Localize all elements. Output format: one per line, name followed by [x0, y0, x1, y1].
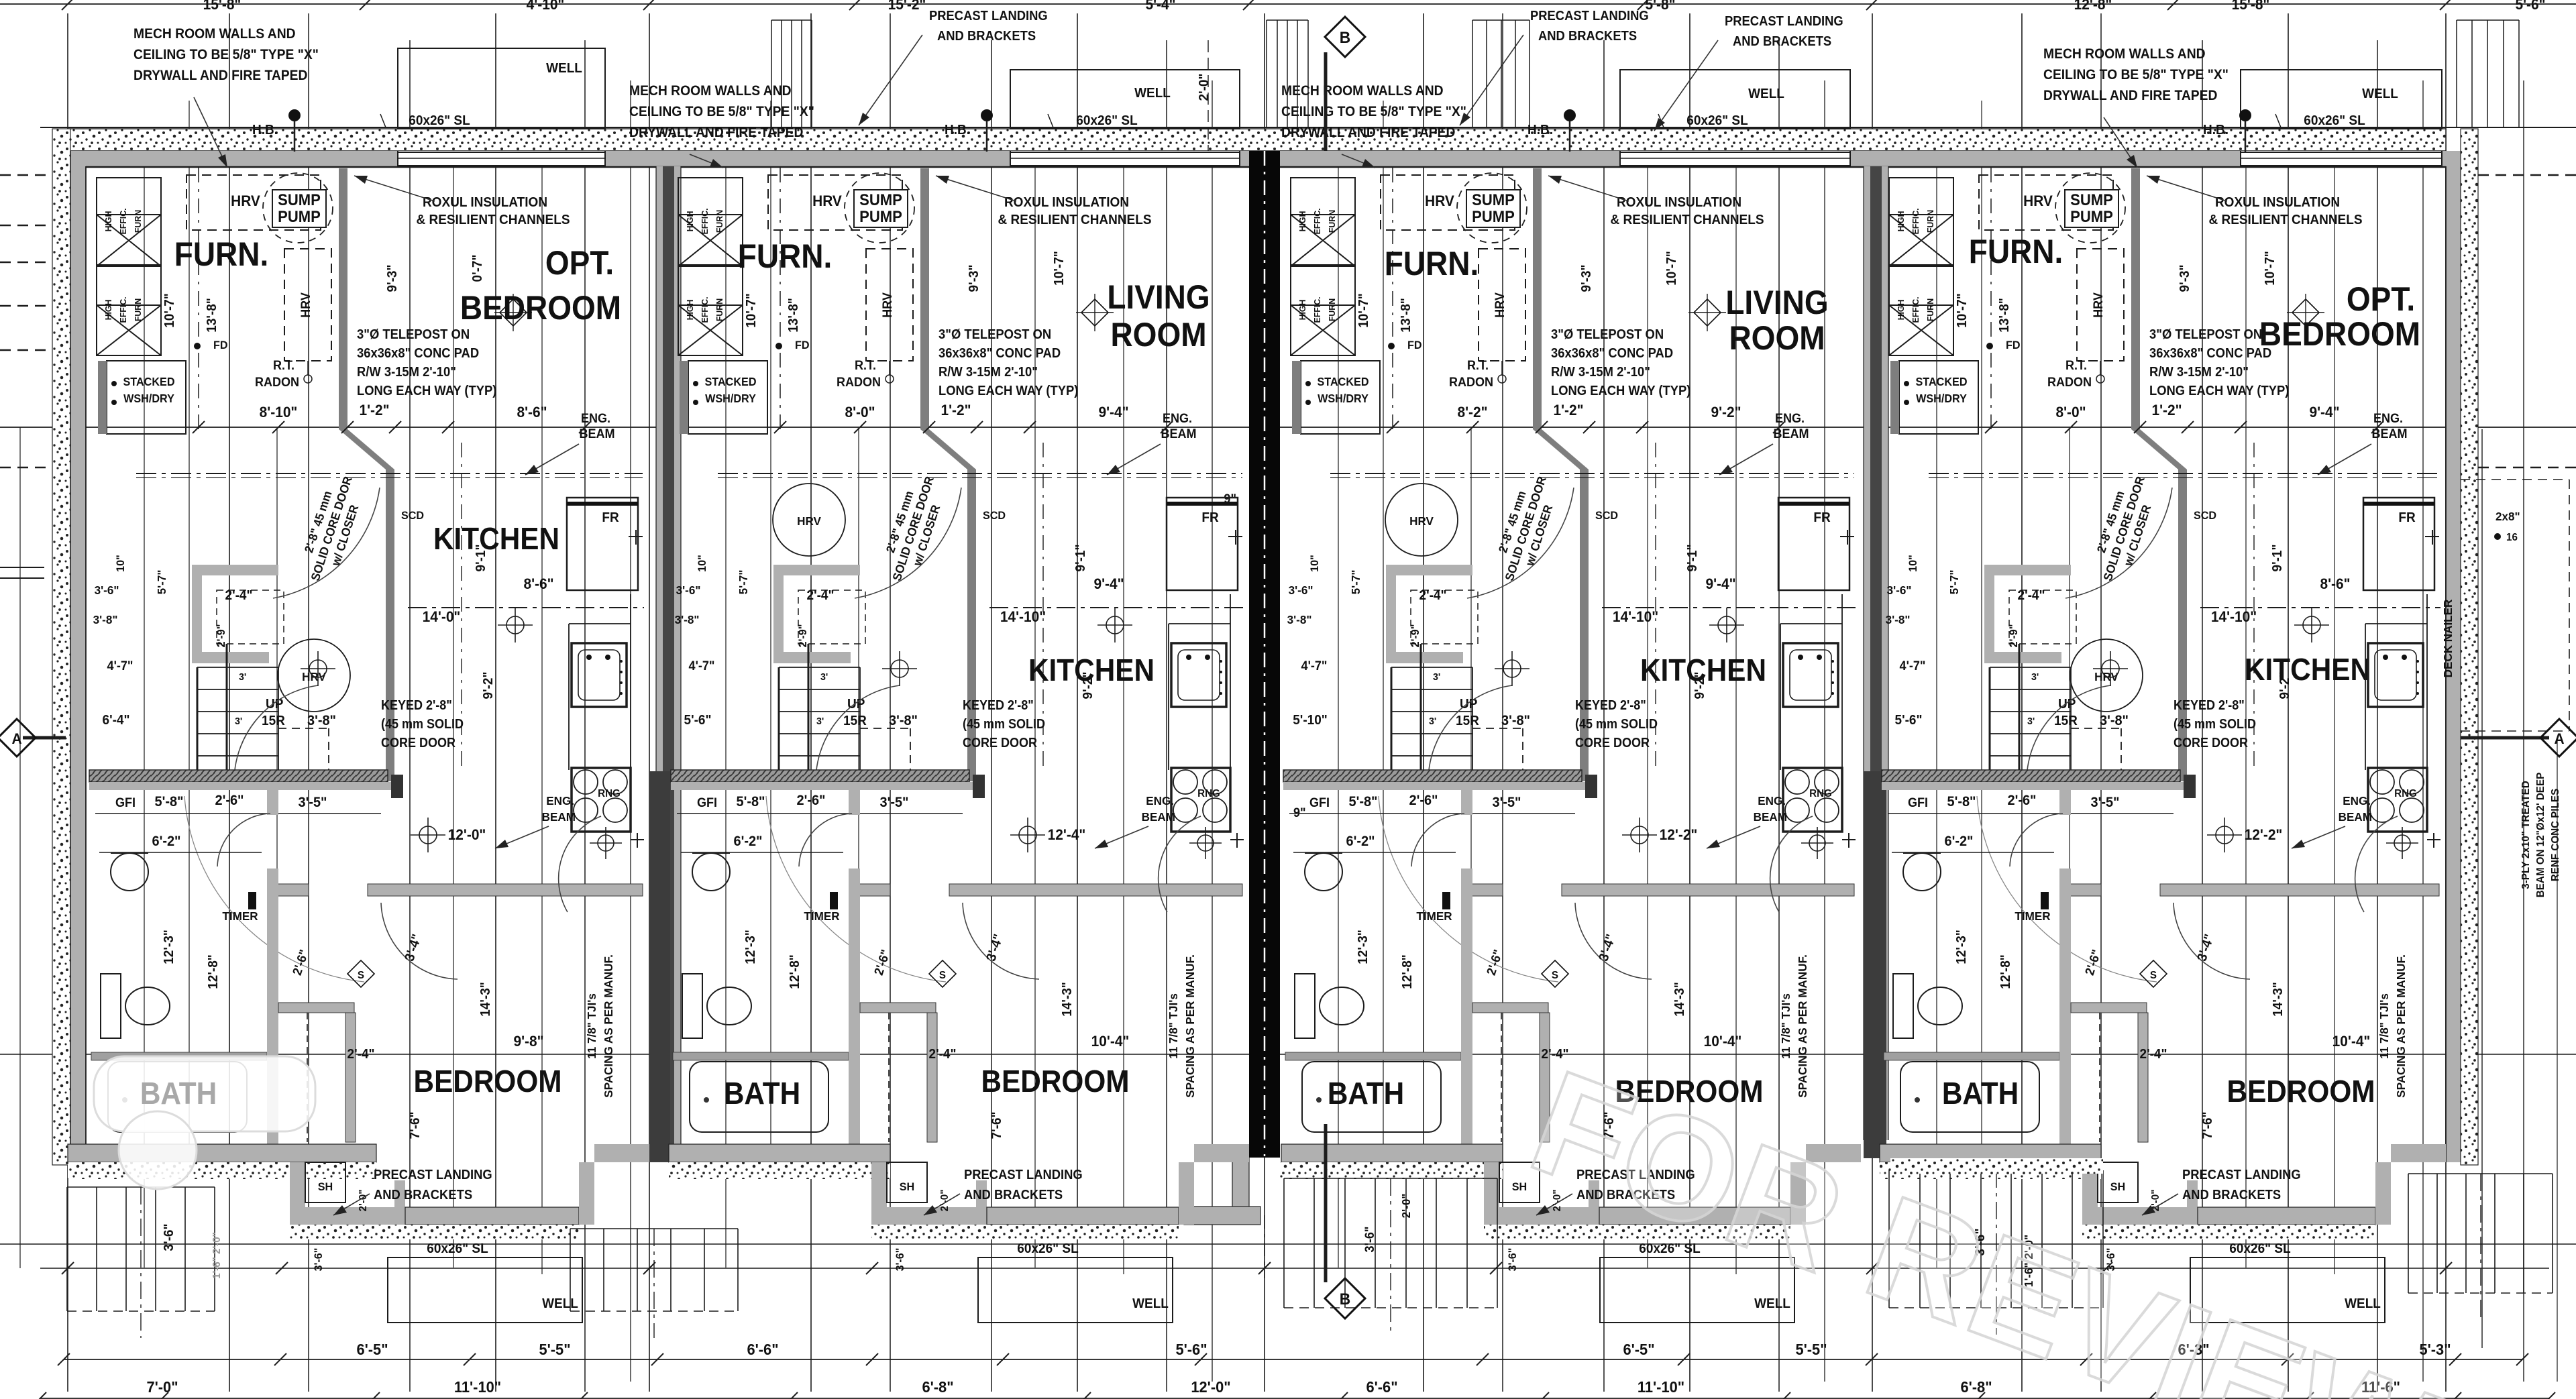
svg-text:2'-6": 2'-6" — [215, 793, 244, 809]
unit 2 bath sink — [692, 853, 730, 891]
unit 3 smoke detector — [1542, 960, 1568, 987]
svg-text:3'-6": 3'-6" — [1887, 583, 1912, 598]
svg-text:4'-7": 4'-7" — [1301, 659, 1328, 673]
svg-text:SPACING AS PER MANUF.: SPACING AS PER MANUF. — [602, 954, 616, 1098]
svg-text:11 7/8" TJI's: 11 7/8" TJI's — [2377, 993, 2392, 1059]
svg-text:2'-4": 2'-4" — [225, 588, 253, 604]
svg-text:3': 3' — [820, 672, 828, 683]
svg-text:3'-8": 3'-8" — [889, 713, 918, 729]
svg-text:TIMER: TIMER — [1416, 909, 1452, 924]
svg-text:EFFIC.: EFFIC. — [700, 208, 710, 234]
section line A left — [23, 736, 66, 740]
svg-text:LONG EACH WAY (TYP): LONG EACH WAY (TYP) — [1551, 384, 1690, 398]
unit 2 bedroom top wall — [850, 884, 890, 896]
svg-text:WSH/DRY: WSH/DRY — [705, 392, 756, 405]
svg-text:HIGH: HIGH — [686, 211, 695, 232]
svg-text:MECH ROOM WALLS AND: MECH ROOM WALLS AND — [1281, 83, 1444, 99]
svg-text:3'-5": 3'-5" — [1492, 795, 1521, 811]
unit 2 stair door arc — [816, 685, 900, 779]
svg-text:EFFIC.: EFFIC. — [1313, 208, 1322, 234]
stairwell flank stipple — [1890, 1158, 2103, 1174]
deck dashed outline — [2461, 479, 2569, 480]
svg-text:2'-6": 2'-6" — [1409, 793, 1438, 809]
svg-text:R.T.: R.T. — [855, 358, 876, 373]
svg-text:12'-3": 12'-3" — [162, 930, 177, 964]
unit 1 landing walls — [290, 1162, 305, 1225]
unit 4 FD symbol — [1986, 343, 1993, 349]
svg-text:60x26" SL: 60x26" SL — [1686, 113, 1748, 129]
svg-text:BEDROOM: BEDROOM — [2259, 316, 2420, 353]
svg-text:WELL: WELL — [546, 61, 582, 76]
svg-text:& RESILIENT CHANNELS: & RESILIENT CHANNELS — [1610, 213, 1764, 228]
unit 3 bath walls — [1461, 782, 1472, 815]
svg-text:13'-8": 13'-8" — [205, 298, 220, 333]
center band bottom jog gray — [1232, 1158, 1249, 1207]
unit 1 range — [572, 768, 631, 832]
svg-text:11 7/8" TJI's: 11 7/8" TJI's — [585, 993, 599, 1059]
vertical grid lines — [229, 13, 230, 1392]
svg-text:3'-8": 3'-8" — [1501, 713, 1530, 729]
svg-text:WELL: WELL — [2362, 87, 2398, 102]
unit 4 kitchen beam dash — [2200, 607, 2440, 608]
unit 2 hall arc — [766, 796, 946, 982]
svg-text:2'-4": 2'-4" — [2140, 1047, 2167, 1062]
svg-text:6'-8": 6'-8" — [1960, 1378, 1992, 1396]
unit 3 kitchen sink — [1783, 643, 1838, 707]
unit 2 telepost symbol — [1081, 299, 1108, 326]
svg-text:ENG.: ENG. — [1775, 411, 1805, 426]
svg-text:SCD: SCD — [2194, 509, 2216, 522]
svg-text:KITCHEN: KITCHEN — [2245, 653, 2371, 687]
svg-text:9'-3": 9'-3" — [385, 265, 400, 292]
svg-text:RADON: RADON — [2047, 375, 2092, 390]
marker B bottom — [1325, 1278, 1365, 1319]
svg-text:STACKED: STACKED — [704, 375, 756, 388]
svg-text:HIGH: HIGH — [104, 211, 113, 232]
svg-text:WSH/DRY: WSH/DRY — [1318, 392, 1368, 405]
svg-text:(45 mm SOLID: (45 mm SOLID — [381, 717, 464, 732]
svg-text:16: 16 — [2506, 532, 2518, 543]
svg-text:GFI: GFI — [115, 795, 136, 810]
svg-text:9'-4": 9'-4" — [1098, 404, 1128, 421]
svg-text:9'-1": 9'-1" — [1073, 545, 1089, 572]
svg-text:STACKED: STACKED — [1317, 375, 1368, 388]
unit 4 bath bottom wall — [1880, 1144, 2101, 1162]
unit 4 closet walls — [2071, 1003, 2147, 1013]
bottom well boxes — [388, 1257, 582, 1323]
svg-text:12'-8": 12'-8" — [1998, 954, 2014, 989]
unit 3 bath sink — [1305, 853, 1342, 891]
svg-text:60x26" SL: 60x26" SL — [2229, 1241, 2290, 1257]
svg-text:5'-8": 5'-8" — [1348, 794, 1377, 810]
svg-text:B: B — [1340, 28, 1350, 46]
svg-text:1'-2": 1'-2" — [1553, 402, 1583, 419]
svg-text:BATH: BATH — [1328, 1076, 1404, 1111]
svg-text:RNG: RNG — [2394, 788, 2417, 799]
svg-text:10'-4": 10'-4" — [1091, 1033, 1130, 1050]
right exterior gray wall — [2446, 151, 2461, 1162]
unit 1 position crosses — [309, 660, 327, 677]
svg-text:BATH: BATH — [1942, 1076, 2019, 1111]
svg-text:FR: FR — [2398, 510, 2415, 526]
svg-text:7'-6": 7'-6" — [408, 1112, 423, 1139]
svg-text:EFFIC.: EFFIC. — [119, 208, 128, 234]
svg-text:MECH ROOM WALLS AND: MECH ROOM WALLS AND — [133, 26, 296, 42]
svg-text:H.B.: H.B. — [2203, 123, 2229, 138]
unit 2 position crosses — [891, 660, 908, 677]
svg-text:BEAM ON 12"Øx12' DEEP: BEAM ON 12"Øx12' DEEP — [2535, 773, 2546, 897]
section line B bottom — [1324, 1124, 1328, 1282]
svg-text:KEYED 2'-8": KEYED 2'-8" — [2173, 698, 2245, 713]
unit 4 tub — [1900, 1062, 2039, 1132]
svg-text:5'-8": 5'-8" — [1645, 0, 1675, 13]
svg-text:R/W 3-15M 2'-10": R/W 3-15M 2'-10" — [938, 365, 1038, 380]
unit 2 hrv circle — [773, 484, 845, 556]
svg-text:AND BRACKETS: AND BRACKETS — [2182, 1188, 2281, 1202]
svg-text:CEILING TO BE 5/8" TYPE "X": CEILING TO BE 5/8" TYPE "X" — [2043, 67, 2229, 82]
svg-text:S: S — [939, 970, 946, 981]
svg-text:10'-4": 10'-4" — [2332, 1033, 2371, 1050]
svg-text:10'-7": 10'-7" — [1356, 293, 1372, 328]
svg-text:STACKED: STACKED — [123, 375, 174, 388]
svg-text:SH: SH — [900, 1180, 914, 1193]
right exterior stipple — [2461, 129, 2478, 1165]
unit 4 smoke detector — [2140, 960, 2167, 987]
svg-text:A: A — [2554, 731, 2564, 748]
unit 2 stair closet walls — [773, 565, 860, 575]
svg-text:1'-2": 1'-2" — [941, 402, 971, 419]
svg-text:6'-6": 6'-6" — [1366, 1378, 1397, 1396]
svg-text:CEILING TO BE 5/8" TYPE "X": CEILING TO BE 5/8" TYPE "X" — [629, 104, 814, 119]
svg-text:ENG.: ENG. — [2343, 794, 2371, 808]
unit 3 toilet — [1295, 974, 1315, 1038]
unit 2 stairs — [779, 667, 860, 668]
unit 3 position crosses — [1503, 660, 1521, 677]
right margin verticals — [2481, 429, 2483, 1348]
svg-text:3'-5": 3'-5" — [2090, 795, 2119, 811]
unit 4 kitchen sink — [2368, 643, 2423, 707]
unit 1 kitchen beam dash — [408, 607, 644, 608]
unit 1 tub — [108, 1062, 247, 1132]
svg-text:FURN: FURN — [133, 210, 143, 233]
dimension tick marks — [193, 421, 205, 433]
boundary vertical grid lines — [67, 13, 68, 1392]
svg-text:3': 3' — [2027, 716, 2035, 727]
svg-text:EFFIC.: EFFIC. — [700, 296, 710, 323]
svg-text:5'-6": 5'-6" — [2515, 0, 2545, 13]
bottom dimension line 4 — [40, 1398, 2549, 1399]
right margin dashed stubs — [2461, 174, 2576, 176]
svg-text:FURN.: FURN. — [174, 236, 269, 273]
top exterior stipple band — [68, 129, 2446, 151]
svg-text:FD: FD — [795, 339, 810, 351]
unit 4 stair closet walls — [1984, 565, 2071, 575]
svg-text:EFFIC.: EFFIC. — [1911, 296, 1921, 323]
unit 2 mech door arc — [855, 488, 961, 598]
svg-text:BEAM: BEAM — [1142, 810, 1175, 824]
svg-text:ENG.: ENG. — [1758, 794, 1786, 808]
unit 3 closet walls — [1472, 1003, 1548, 1013]
bottom stairwells — [66, 1187, 68, 1311]
unit 3 sump pump — [1457, 173, 1527, 243]
svg-text:SCD: SCD — [983, 509, 1006, 522]
unit 3 stairs — [1391, 667, 1472, 668]
svg-text:SPACING AS PER MANUF.: SPACING AS PER MANUF. — [1796, 954, 1810, 1098]
svg-text:CORE DOOR: CORE DOOR — [963, 736, 1037, 750]
long mid-plan dimension line — [0, 427, 2576, 428]
unit 3 bedroom top wall — [1462, 884, 1503, 896]
svg-text:AND BRACKETS: AND BRACKETS — [964, 1188, 1063, 1202]
svg-text:60x26" SL: 60x26" SL — [2304, 113, 2365, 129]
unit 2 closet walls — [860, 1003, 936, 1013]
svg-text:2'-6": 2'-6" — [2007, 793, 2036, 809]
svg-text:10'-7": 10'-7" — [1664, 251, 1680, 286]
unit 4 bedroom door arc — [2173, 903, 2250, 979]
svg-text:LONG EACH WAY (TYP): LONG EACH WAY (TYP) — [938, 384, 1078, 398]
svg-text:FURN.: FURN. — [738, 238, 833, 275]
svg-text:LONG EACH WAY (TYP): LONG EACH WAY (TYP) — [2149, 384, 2289, 398]
left margin vertical — [19, 427, 21, 1268]
svg-text:WELL: WELL — [1754, 1296, 1790, 1312]
svg-text:5'-6": 5'-6" — [684, 713, 712, 728]
unit 3 range — [1783, 768, 1842, 832]
svg-text:12'-2": 12'-2" — [1660, 827, 1698, 844]
svg-text:8'-0": 8'-0" — [845, 404, 875, 421]
svg-text:10'-7": 10'-7" — [744, 293, 759, 328]
svg-text:3-PLY 2x10" TREATED: 3-PLY 2x10" TREATED — [2520, 781, 2532, 889]
svg-text:S: S — [1552, 970, 1558, 981]
unit 3 fridge — [1778, 498, 1849, 590]
unit 1 bedroom bottom wall — [405, 1207, 579, 1225]
unit 2 bath walls — [849, 782, 860, 815]
unit 3 stair door arc — [1428, 685, 1512, 779]
svg-text:12'-8": 12'-8" — [788, 954, 803, 989]
center demising black band — [1249, 151, 1280, 1158]
svg-text:10'-7": 10'-7" — [162, 293, 178, 328]
svg-text:12'-0": 12'-0" — [448, 827, 486, 844]
left exterior stipple — [52, 129, 70, 1165]
svg-text:PUMP: PUMP — [278, 207, 321, 225]
svg-text:4'-7": 4'-7" — [689, 659, 715, 673]
svg-text:BEDROOM: BEDROOM — [414, 1064, 562, 1099]
svg-text:1'-2": 1'-2" — [359, 402, 389, 419]
unit 2 toilet — [682, 974, 702, 1038]
svg-text:ROXUL INSULATION: ROXUL INSULATION — [1617, 195, 1741, 211]
svg-text:PUMP: PUMP — [1472, 207, 1515, 225]
svg-text:PUMP: PUMP — [2070, 207, 2113, 225]
unit 2 HRV vertical dashed box — [866, 249, 913, 361]
unit 4 landing walls — [2082, 1162, 2098, 1225]
svg-text:DRYWALL AND FIRE TAPED: DRYWALL AND FIRE TAPED — [2043, 88, 2217, 103]
svg-text:3'-8": 3'-8" — [2100, 713, 2129, 729]
unit 2 tub top band — [673, 1052, 849, 1060]
svg-text:8'-2": 8'-2" — [1457, 404, 1487, 421]
svg-text:AND BRACKETS: AND BRACKETS — [374, 1188, 472, 1202]
unit 2 mech room wall — [920, 168, 929, 429]
svg-text:5'-6": 5'-6" — [1175, 1341, 1207, 1358]
svg-text:3"Ø TELEPOST ON: 3"Ø TELEPOST ON — [1551, 327, 1664, 342]
svg-text:DRYWALL AND FIRE TAPED: DRYWALL AND FIRE TAPED — [1281, 125, 1455, 140]
svg-text:9'-2": 9'-2" — [1711, 404, 1741, 421]
svg-text:3'-8": 3'-8" — [93, 613, 118, 627]
svg-text:FURN.: FURN. — [1969, 233, 2063, 270]
unit 4 hall arc — [1977, 796, 2157, 982]
unit 2 bedroom door arc — [963, 903, 1039, 979]
svg-text:FURN: FURN — [133, 298, 143, 321]
svg-text:3'-6": 3'-6" — [894, 1248, 906, 1272]
svg-text:WSH/DRY: WSH/DRY — [1916, 392, 1967, 405]
svg-text:2'-9": 2'-9" — [215, 624, 227, 648]
svg-text:3'-6": 3'-6" — [1506, 1248, 1519, 1272]
svg-text:HIGH: HIGH — [686, 300, 695, 321]
svg-text:3': 3' — [1433, 672, 1440, 683]
svg-text:CORE DOOR: CORE DOOR — [1575, 736, 1650, 750]
unit 3 shower closet — [1499, 1162, 1540, 1202]
svg-text:SCD: SCD — [401, 509, 424, 522]
long line through bedrooms — [0, 1054, 2576, 1055]
svg-text:12'-8": 12'-8" — [2074, 0, 2112, 13]
svg-text:CEILING TO BE 5/8" TYPE "X": CEILING TO BE 5/8" TYPE "X" — [133, 47, 319, 62]
svg-text:WELL: WELL — [1134, 86, 1171, 101]
svg-text:BATH: BATH — [140, 1076, 217, 1111]
svg-text:7'-6": 7'-6" — [989, 1112, 1005, 1139]
svg-text:12'-8": 12'-8" — [1400, 954, 1415, 989]
svg-text:5'-7": 5'-7" — [737, 570, 751, 595]
svg-text:TIMER: TIMER — [222, 909, 258, 924]
svg-text:2'-0": 2'-0" — [1399, 1194, 1413, 1219]
svg-text:OPT.: OPT. — [545, 245, 614, 282]
unit 3 mech room wall — [1533, 168, 1542, 429]
svg-text:5'-10": 5'-10" — [1293, 713, 1328, 728]
svg-text:ENG.: ENG. — [2373, 411, 2403, 426]
svg-text:3'-6": 3'-6" — [1289, 583, 1313, 598]
svg-text:3'-6": 3'-6" — [312, 1248, 325, 1272]
svg-text:5'-4": 5'-4" — [1145, 0, 1175, 13]
unit 4 bedroom top wall — [2061, 884, 2101, 896]
svg-text:BEDROOM: BEDROOM — [460, 290, 621, 327]
svg-text:R.T.: R.T. — [1467, 358, 1489, 373]
unit 2 fridge — [1167, 498, 1238, 590]
svg-text:BEDROOM: BEDROOM — [981, 1064, 1130, 1099]
svg-text:FURN: FURN — [715, 210, 724, 233]
svg-text:EFFIC.: EFFIC. — [1313, 296, 1322, 323]
unit 1 stacked washer dryer — [107, 361, 186, 434]
svg-text:KEYED 2'-8": KEYED 2'-8" — [381, 698, 452, 713]
svg-text:FR: FR — [602, 510, 619, 526]
unit 3 range arc — [1770, 816, 1813, 912]
unit 1 HRV dashed box — [186, 175, 321, 230]
svg-text:9'-4": 9'-4" — [1093, 576, 1124, 593]
svg-text:SH: SH — [2110, 1180, 2125, 1193]
unit 4 kitchen counter — [2365, 624, 2366, 770]
svg-text:FR: FR — [1813, 510, 1830, 526]
svg-text:H.B.: H.B. — [945, 123, 970, 138]
svg-text:7'-0": 7'-0" — [146, 1378, 178, 1396]
svg-text:9'-1": 9'-1" — [474, 545, 489, 572]
svg-text:FURN.: FURN. — [1385, 245, 1479, 282]
svg-text:15R: 15R — [2054, 714, 2078, 729]
unit 3 hall arc — [1379, 796, 1558, 982]
unit 3 hatched wall — [1283, 770, 1582, 782]
svg-text:10'-7": 10'-7" — [1052, 251, 1067, 286]
svg-text:KEYED 2'-8": KEYED 2'-8" — [1575, 698, 1646, 713]
svg-text:9'-3": 9'-3" — [967, 265, 982, 292]
svg-text:HRV: HRV — [880, 292, 895, 317]
unit 2 furnace stack boxes — [678, 215, 743, 266]
svg-text:36x36x8" CONC PAD: 36x36x8" CONC PAD — [2149, 346, 2271, 361]
svg-text:60x26" SL: 60x26" SL — [427, 1241, 488, 1257]
svg-text:SUMP: SUMP — [1472, 190, 1515, 209]
svg-text:2'-4": 2'-4" — [807, 588, 835, 604]
unit 4 range — [2368, 768, 2427, 832]
unit 4 HRV vertical dashed box — [2077, 249, 2124, 361]
svg-text:H.B.: H.B. — [1527, 123, 1553, 138]
unit 1 smoke detector — [347, 960, 374, 987]
svg-text:3': 3' — [239, 672, 246, 683]
svg-text:1'-6" 2'-0": 1'-6" 2'-0" — [211, 1232, 223, 1279]
unit 2 stacked washer dryer — [688, 361, 767, 434]
svg-text:13'-8": 13'-8" — [1997, 298, 2012, 333]
svg-text:WELL: WELL — [2345, 1296, 2381, 1312]
svg-text:HRV: HRV — [2091, 292, 2106, 317]
svg-text:8'-6": 8'-6" — [517, 404, 547, 421]
svg-text:5'-8": 5'-8" — [154, 794, 183, 810]
svg-text:14'-3": 14'-3" — [1672, 982, 1688, 1017]
svg-text:15R: 15R — [1456, 714, 1479, 729]
svg-text:WELL: WELL — [542, 1296, 578, 1312]
svg-text:RADON: RADON — [837, 375, 881, 390]
svg-text:12'-0": 12'-0" — [1191, 1378, 1230, 1396]
unit 1 stair closet walls — [192, 565, 278, 575]
svg-text:FD: FD — [2006, 339, 2021, 351]
svg-text:R/W 3-15M 2'-10": R/W 3-15M 2'-10" — [1551, 365, 1650, 380]
svg-text:ROOM: ROOM — [1729, 320, 1825, 357]
svg-text:5'-6": 5'-6" — [1895, 713, 1923, 728]
svg-text:3'-5": 3'-5" — [298, 795, 327, 811]
svg-text:CEILING TO BE 5/8" TYPE "X": CEILING TO BE 5/8" TYPE "X" — [1281, 104, 1466, 119]
party wall unit1-unit2 — [656, 166, 681, 1144]
svg-text:HRV: HRV — [797, 514, 821, 528]
unit 1 bedroom top wall — [268, 884, 309, 896]
svg-text:KITCHEN: KITCHEN — [433, 522, 559, 556]
top stair clusters — [771, 20, 772, 127]
svg-text:A: A — [11, 731, 21, 748]
svg-text:LONG EACH WAY (TYP): LONG EACH WAY (TYP) — [357, 384, 496, 398]
svg-text:H.B.: H.B. — [252, 123, 278, 138]
unit 3 hrv circle — [1385, 484, 1458, 556]
unit 1 mech room wall — [339, 168, 347, 429]
unit 1 bath walls — [267, 782, 278, 815]
unit 1 fridge — [567, 498, 638, 590]
svg-text:SH: SH — [318, 1180, 333, 1193]
unit 3 stair closet walls — [1386, 565, 1472, 575]
svg-text:EFFIC.: EFFIC. — [119, 296, 128, 323]
unit 2 range — [1171, 768, 1230, 832]
svg-text:BEAM: BEAM — [542, 810, 576, 824]
svg-text:10'-7": 10'-7" — [2263, 251, 2278, 286]
svg-text:3"Ø TELEPOST ON: 3"Ø TELEPOST ON — [357, 327, 470, 342]
svg-text:(45 mm SOLID: (45 mm SOLID — [1575, 717, 1658, 732]
svg-text:S: S — [358, 970, 364, 981]
svg-text:S: S — [2150, 970, 2157, 981]
unit 3 furnace stack boxes — [1291, 215, 1355, 266]
svg-text:3'-8": 3'-8" — [675, 613, 700, 627]
unit 4 sump pump — [2055, 173, 2125, 243]
unit 4 bath sink — [1903, 853, 1941, 891]
svg-text:HIGH: HIGH — [1896, 300, 1906, 321]
svg-text:SUMP: SUMP — [2070, 190, 2113, 209]
svg-text:15'-8": 15'-8" — [2232, 0, 2270, 13]
